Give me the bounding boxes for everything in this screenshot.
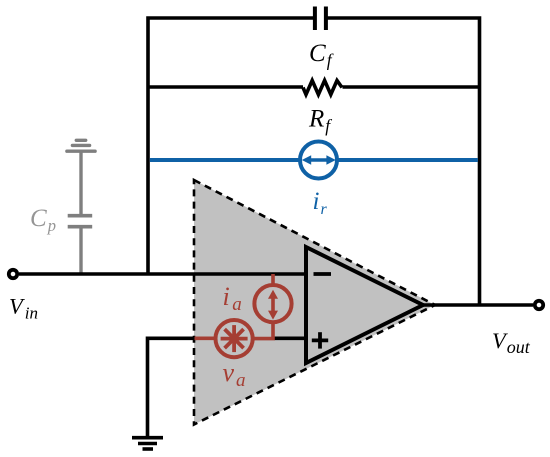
label v_a — [223, 358, 246, 391]
label i_a — [223, 282, 242, 315]
voltage noise source v_a (red circle with asterisk) — [216, 320, 253, 357]
wire: red segment left of v_a — [195, 336, 216, 340]
wire: inverting input wire from V_in to op-amp — [19, 272, 306, 276]
op-amp U1 (inner solid triangle) — [306, 247, 423, 363]
wire: gray lead from ground to C_p — [79, 151, 82, 214]
wire: black segment from i_a junction to op-amp + input — [274, 336, 306, 340]
capacitor C_f — [315, 7, 326, 31]
resistor R_f — [303, 81, 342, 95]
wire: red segment from v_a to i_a junction and up to i_a — [253, 323, 273, 339]
current noise source i_a (red circle with vertical double arrow) — [254, 285, 291, 322]
node V_in terminal — [9, 270, 17, 278]
op-amp noise-model envelope (dashed gray triangle) — [194, 180, 435, 425]
wire: blue noise branch horizontal — [150, 158, 478, 162]
label i_r — [313, 188, 328, 218]
capacitor C_p (gray) — [68, 216, 93, 227]
op-amp plus pin symbol — [312, 332, 328, 348]
label C_f — [309, 40, 334, 70]
ground (gray, above C_p, inverted) — [67, 140, 95, 151]
node V_out terminal — [535, 301, 543, 309]
op-amp minus pin symbol — [314, 272, 332, 276]
label C_p — [30, 205, 56, 235]
wire: ground lead up and non-inverting input wire — [148, 338, 197, 437]
wire: red stub from inverting wire down to i_a top — [271, 274, 275, 285]
label V_out — [492, 328, 531, 357]
label V_in — [9, 294, 38, 323]
wire: top feedback loop (left vertical, top horizontal to C_f, right vertical) — [148, 18, 480, 305]
wire: output wire — [421, 303, 533, 307]
current noise source i_r (blue circle with horizontal double arrow) — [300, 142, 337, 179]
wire: R_f branch horizontal — [148, 85, 480, 89]
label R_f — [308, 106, 332, 136]
wire: gray lead from C_p down to input wire — [79, 228, 82, 274]
ground (bottom, black) — [132, 438, 163, 449]
